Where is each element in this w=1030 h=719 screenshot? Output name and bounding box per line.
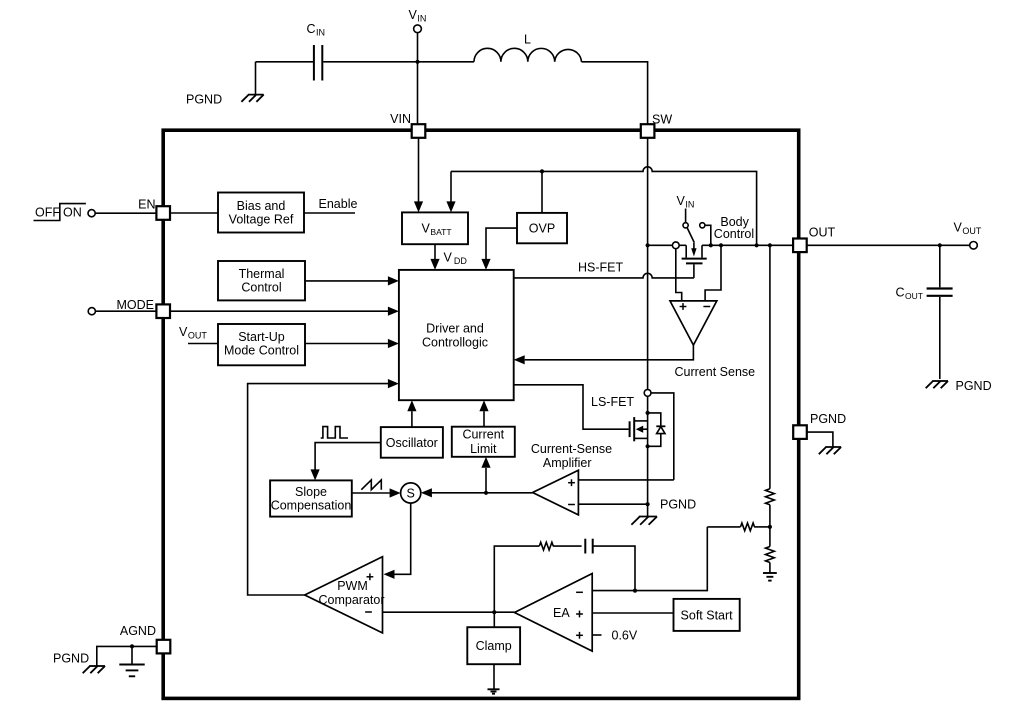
svg-text:Controllogic: Controllogic [422,336,488,350]
svg-text:Current: Current [462,427,504,441]
op-amp EA error amplifier [515,574,593,652]
ground at feedback divider [763,573,777,581]
svg-text:OVP: OVP [529,222,555,236]
svg-text:ON: ON [63,205,82,219]
svg-text:OUT: OUT [809,225,836,239]
block Soft Start [674,599,740,631]
wire EN terminal to EN pin [95,212,156,214]
svg-text:Limit: Limit [470,442,497,456]
wire source circle to FET [679,244,686,246]
resistor feedback lower [766,527,775,573]
svg-text:Clamp: Clamp [476,639,512,653]
svg-text:MODE: MODE [117,298,155,312]
svg-text:SW: SW [652,113,672,127]
pin VIN [390,112,425,138]
inductor L [474,33,582,62]
block Thermal Control [218,261,305,300]
label V_IN body switch [677,194,695,210]
svg-text:AGND: AGND [120,624,156,638]
sawtooth ramp symbol [361,480,381,490]
wire clamp to ground [493,664,495,689]
transistor HS-FET bulk arrow [691,243,696,257]
node LS-FET drain [646,411,650,415]
compensation RC network [494,539,635,613]
svg-text:LS-FET: LS-FET [591,395,634,409]
transistor LS-FET [630,417,648,441]
svg-text:Start-Up: Start-Up [238,330,285,344]
node LS-FET source [646,444,650,448]
wire FB node to EA resistor [707,523,770,531]
body switch V_IN lead [685,209,687,223]
svg-text:VOUT: VOUT [179,325,207,341]
svg-text:VIN: VIN [677,194,695,210]
wire MODE terminal to MODE pin [95,310,156,312]
wire to current limit block [481,457,490,493]
wire VBATT to driver V_DD [430,244,467,270]
wire oscillator to driver [407,400,416,427]
node HS-FET source circle [672,242,679,249]
block Bias and Voltage Ref [218,193,304,233]
svg-text:PWM: PWM [337,579,368,593]
svg-text:Control: Control [714,227,754,241]
wire HS-FET drain to sense amp - [705,245,721,301]
V_OUT output terminal [954,220,982,249]
MODE source terminal [88,308,95,315]
wire slope compensation to summer [352,488,401,497]
svg-text:PGND: PGND [810,412,846,426]
V_IN input terminal [409,8,427,33]
svg-text:0.6V: 0.6V [612,628,638,642]
svg-text:Soft Start: Soft Start [681,608,734,622]
label Current-Sense Amplifier [531,442,612,470]
block Slope Compensation [270,480,352,516]
body switch contact V_IN [683,223,688,228]
wire current sense out to driver [514,345,694,364]
node LS drain circle [644,390,651,397]
pin SW [641,113,673,138]
block Oscillator [381,427,443,458]
svg-text:VIN: VIN [409,8,427,24]
svg-text:EA: EA [553,606,570,620]
svg-text:PGND: PGND [186,93,222,107]
resistor feedback upper [766,489,775,505]
node EA - input junction [633,589,637,593]
op-amp current-sense amplifier [533,470,579,515]
pin MODE [117,298,171,318]
svg-text:Current-Sense: Current-Sense [531,442,612,456]
wire EA - input to feedback divider [592,527,707,591]
wire inductor to SW pin [582,62,648,124]
svg-text:Driver and: Driver and [426,321,484,335]
transistor HS-FET gate lead [693,264,695,278]
wire OUT pin to V_OUT terminal [807,244,970,246]
oscillator clock waveform symbol [321,427,348,438]
op-amp PWM comparator [305,557,385,633]
svg-text:PGND: PGND [53,652,89,666]
EN source terminal [88,210,95,217]
svg-text:VDD: VDD [444,251,468,267]
wire VIN pin to VBATT with arrow [414,138,423,213]
wire Enable output [304,197,357,213]
ground PGND chassis at AGND [83,666,105,673]
svg-text:S: S [407,487,415,501]
wire summer to PWM comparator + [384,503,411,579]
node OVP tap junction [540,169,544,173]
wire V_IN terminal to input rail [417,33,419,62]
svg-text:Enable: Enable [319,197,358,211]
wire driver to HS-FET gate [514,260,694,278]
transistor HS-FET [682,245,707,263]
wire C_IN left down to ground [255,62,257,95]
label Current Sense [675,365,756,379]
wire sense amp output to summer [421,488,533,497]
wire MODE pin to driver [170,307,399,316]
pin PGND [793,412,846,439]
node AGND ground junction [130,644,134,648]
block Start-Up Mode Control [218,324,305,365]
label PGND at C_OUT [956,379,992,393]
label PGND at C_IN [186,93,222,107]
wire EA reference 0.6V [592,628,638,642]
pin EN [138,197,170,220]
node C_OUT junction [938,243,942,247]
wire sense amp - input [578,503,647,505]
wire oscillator to slope compensation [311,443,381,481]
svg-text:Amplifier: Amplifier [543,456,592,470]
diode LS-FET body diode [648,413,666,446]
capacitor C_IN [307,22,326,81]
wire EA + input to soft start [592,612,673,614]
body switch blade [687,228,694,243]
wire HS-FET source to sense amp + [676,249,682,301]
node junctions on OUT rail [646,243,773,247]
wire SW to HS-FET source [648,244,673,246]
svg-text:Oscillator: Oscillator [386,436,438,450]
wire PWM comparator output to driver [248,379,399,595]
ground PGND chassis at pin [819,447,841,454]
svg-text:EN: EN [138,197,155,211]
svg-text:Current Sense: Current Sense [675,365,756,379]
wire V_OUT to start-up block [188,343,218,345]
wire AGND junction to earth [131,646,133,664]
svg-text:OFF: OFF [35,205,60,219]
op-amp current sense [670,301,717,345]
pin OUT [793,225,835,252]
node input rail junction [415,60,419,64]
wire start-up block to driver [305,339,399,348]
svg-text:Voltage Ref: Voltage Ref [229,212,294,226]
wire sense amp + input [578,479,673,481]
svg-text:Comparator: Comparator [319,593,385,607]
ground PGND chassis at C_IN [241,95,263,102]
wire OVP to driver [481,228,517,270]
label PGND at AGND [53,652,89,666]
wire output sense rail [451,167,757,246]
node current limit tap [484,491,488,495]
svg-text:PGND: PGND [660,498,696,512]
wire EN pin to bias block [170,212,218,214]
block Current Limit [452,427,515,457]
svg-text:Mode Control: Mode Control [224,344,299,358]
label V_OUT at start-up input [179,325,207,341]
wire output sense rail to VBATT [446,171,455,212]
wire EA output to PWM comparator - [383,611,515,613]
wire SW line [647,138,649,517]
capacitor C_OUT [896,245,953,379]
svg-text:PGND: PGND [956,379,992,393]
IC boundary box [163,130,799,698]
wire PGND pin to ground [807,432,833,446]
svg-text:CIN: CIN [307,22,326,38]
wire OVP tap down [541,171,543,213]
wire current limit to driver [479,400,488,427]
svg-text:Control: Control [241,281,281,295]
ground PGND chassis at SW line [631,517,657,525]
body switch contact out [700,223,705,228]
node PGND junction on SW line [646,502,650,506]
svg-text:L: L [524,33,531,47]
wire upper resistor to FB node [769,505,771,527]
wire thermal control to driver [305,276,399,285]
block OVP [517,213,567,243]
wire driver to LS-FET gate [514,385,635,429]
block VBATT [402,212,468,244]
wire OUT rail to feedback divider [769,245,771,488]
label PGND at LS-FET source [660,498,696,512]
svg-text:VOUT: VOUT [954,220,982,236]
wire C_IN to inductor [323,61,474,63]
ground at clamp [488,689,500,693]
ground AGND earth [119,665,144,677]
svg-text:Slope: Slope [295,485,327,499]
svg-text:HS-FET: HS-FET [578,260,624,274]
wire AGND pin to external ground [97,646,157,665]
svg-text:COUT: COUT [896,285,923,301]
OFF/ON step symbol [34,204,86,221]
pin AGND [120,624,170,654]
wire EA output to clamp [493,612,495,627]
svg-text:VIN: VIN [390,112,411,126]
svg-text:Compensation: Compensation [271,499,352,513]
node FB junction [768,525,772,529]
svg-text:Thermal: Thermal [239,267,285,281]
node compensation junction [492,610,496,614]
wire V_IN rail down to VIN pin [417,62,419,125]
svg-text:Bias and: Bias and [237,199,286,213]
block Clamp [467,627,520,664]
block Driver and Controllogic [399,270,514,400]
wire input rail left of C_IN [256,61,314,63]
wire HS-FET drain to OUT pin [702,244,793,246]
label Body Control [714,215,754,241]
wire body switch to out node [705,225,711,245]
summer S [401,483,421,503]
ground PGND chassis at C_OUT [926,381,948,388]
wire LS drain circle to sense amp [651,393,674,480]
